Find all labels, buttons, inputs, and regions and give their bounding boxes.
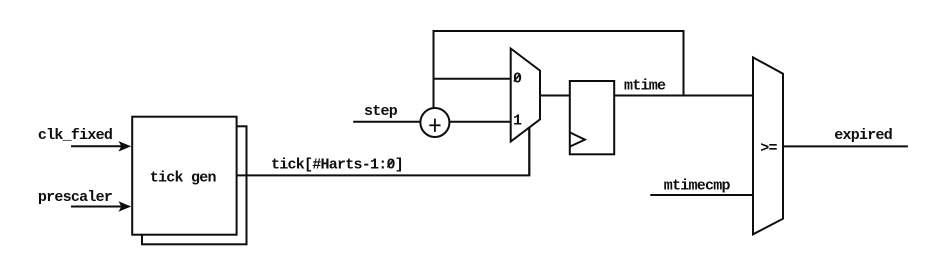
wire step xyxy=(353,121,420,123)
svg-text:step: step xyxy=(364,103,398,120)
label 0 xyxy=(513,71,522,88)
svg-text:tick[#Harts-1:0]: tick[#Harts-1:0] xyxy=(271,157,403,174)
clock input triangle xyxy=(570,132,585,146)
register mtime flip-flop xyxy=(570,81,614,154)
wire prescaler with arrowhead xyxy=(71,201,131,211)
wire adder to mux 1-input xyxy=(449,121,510,123)
wire mux select xyxy=(528,128,530,176)
adder U1 xyxy=(420,108,449,137)
wire clk_fixed with arrowhead xyxy=(71,141,131,151)
block tick gen shadow box xyxy=(142,126,247,244)
label tick[#Harts-1:0] xyxy=(271,157,403,174)
svg-text:prescaler: prescaler xyxy=(38,189,112,206)
svg-text:0: 0 xyxy=(513,71,522,88)
wire tick xyxy=(237,129,530,176)
wire mtimecmp xyxy=(650,194,753,196)
block tick gen xyxy=(132,117,236,235)
mux M1 xyxy=(511,49,540,142)
svg-text:expired: expired xyxy=(834,127,892,144)
wire expired xyxy=(783,145,908,147)
svg-text:mtimecmp: mtimecmp xyxy=(664,177,731,194)
svg-text:1: 1 xyxy=(513,113,522,130)
svg-text:tick gen: tick gen xyxy=(150,170,217,187)
svg-text:>=: >= xyxy=(760,140,777,157)
wire mux 0-input xyxy=(434,78,511,80)
comparator U2 xyxy=(753,57,783,234)
svg-text:mtime: mtime xyxy=(624,77,666,94)
wire feedback top xyxy=(434,31,684,108)
wire mux to register xyxy=(540,95,570,97)
wire mtime xyxy=(614,95,753,97)
svg-text:clk_fixed: clk_fixed xyxy=(38,127,112,144)
